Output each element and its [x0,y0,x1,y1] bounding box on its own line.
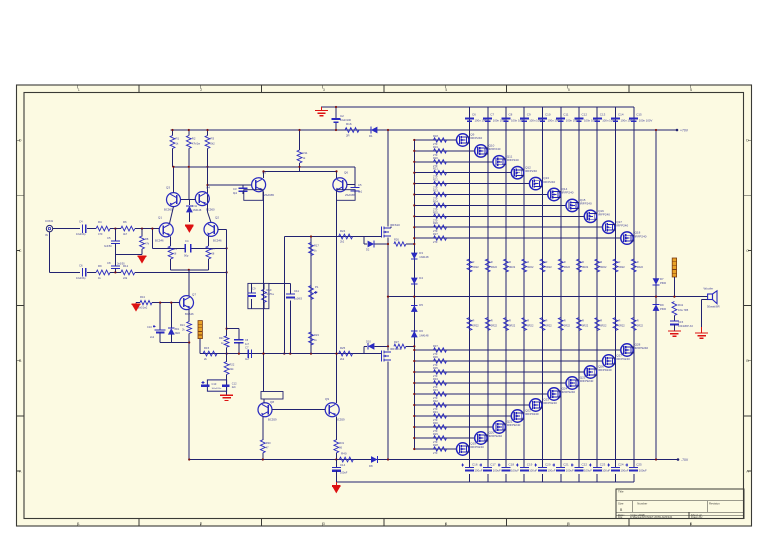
svg-text:D10: D10 [366,340,371,344]
svg-text:270: 270 [433,451,438,455]
svg-text:C6: C6 [79,264,83,268]
svg-text:R7: R7 [212,247,216,251]
svg-text:IRFP9240: IRFP9240 [616,357,630,361]
svg-text:C9: C9 [527,113,531,117]
svg-text:Q9: Q9 [325,397,329,401]
svg-text:R: R [637,260,639,264]
svg-text:Q2: Q2 [215,216,219,220]
svg-text:R26: R26 [433,221,438,225]
svg-text:Q7: Q7 [192,293,196,297]
svg-text:3n3/50: 3n3/50 [104,245,112,248]
svg-text:R22: R22 [230,363,235,367]
svg-text:BC560: BC560 [206,208,215,212]
svg-text:C22: C22 [582,463,588,467]
svg-text:IRFP9240: IRFP9240 [470,445,484,449]
svg-text:R18: R18 [433,134,438,138]
svg-text:R12: R12 [123,264,129,268]
svg-text:6: 6 [690,522,692,526]
svg-text:R14: R14 [180,324,185,327]
svg-text:1: 1 [78,88,80,92]
svg-text:BC560: BC560 [164,208,173,212]
svg-text:IRFP9240: IRFP9240 [543,401,557,405]
svg-text:47k/1w: 47k/1w [192,142,200,146]
svg-text:D11: D11 [193,204,198,208]
svg-text:10uF/6p: 10uF/6p [76,232,86,236]
svg-text:R40: R40 [341,452,347,456]
svg-text:R23: R23 [314,333,319,337]
svg-text:C6: C6 [472,113,476,117]
svg-text:C5: C5 [358,183,362,187]
svg-text:C23: C23 [600,463,606,467]
svg-text:R21: R21 [433,167,438,171]
svg-text:R23: R23 [433,189,438,193]
svg-text:R: R [546,319,548,323]
svg-text:D7: D7 [660,277,664,281]
svg-text:R: R [582,319,584,323]
svg-text:R9: R9 [98,264,102,268]
svg-text:IRFP9240: IRFP9240 [507,423,521,427]
svg-text:C11: C11 [563,113,569,117]
svg-text:IRFP240: IRFP240 [525,169,537,173]
svg-text:270: 270 [433,352,438,356]
svg-text:R: R [564,260,566,264]
svg-text:R24: R24 [340,229,346,233]
svg-text:R20: R20 [433,156,438,160]
svg-text:IRFP240: IRFP240 [507,158,519,162]
svg-text:100uF: 100uF [529,469,537,473]
svg-text:0R22: 0R22 [637,265,644,269]
svg-text:100uF: 100uF [621,469,629,473]
svg-text:R19: R19 [433,145,438,149]
svg-text:R8: R8 [145,237,149,241]
svg-text:4: 4 [445,522,447,526]
svg-text:BC546: BC546 [213,239,222,243]
svg-text:C10: C10 [147,325,152,329]
svg-text:C: C [19,249,22,253]
svg-text:File:: File: [618,515,623,519]
svg-text:R: R [600,260,602,264]
svg-text:R3: R3 [211,137,215,141]
svg-text:270: 270 [433,429,438,433]
svg-text:R: R [527,319,529,323]
svg-text:917Ka: 917Ka [267,293,275,296]
svg-text:R: R [619,260,621,264]
svg-text:D:\Backup\MOSFET-200W-AMP.ddb: D:\Backup\MOSFET-200W-AMP.ddb [630,515,673,519]
svg-text:0R22: 0R22 [564,324,571,328]
svg-text:2k2: 2k2 [340,357,345,361]
svg-text:0R22: 0R22 [619,265,626,269]
svg-text:R16: R16 [346,122,352,126]
svg-text:4n7: 4n7 [245,343,250,346]
svg-text:5: 5 [568,522,570,526]
svg-text:R37: R37 [433,344,438,348]
svg-text:R24: R24 [433,199,438,203]
svg-text:R5: R5 [174,247,178,251]
svg-text:IRFP9240: IRFP9240 [489,434,503,438]
svg-text:P600: P600 [660,307,667,311]
svg-text:IRFP9240: IRFP9240 [525,412,539,416]
svg-text:4k7: 4k7 [123,232,128,236]
svg-text:IRFP9240: IRFP9240 [635,346,649,350]
svg-text:C21: C21 [563,463,569,467]
svg-text:0R22: 0R22 [473,324,480,328]
svg-text:Number: Number [637,501,647,505]
svg-text:D1: D1 [369,134,373,138]
svg-text:2SA965: 2SA965 [264,193,274,197]
svg-text:270: 270 [433,440,438,444]
svg-text:C8: C8 [509,113,513,117]
svg-text:R: R [527,260,529,264]
svg-text:C4: C4 [79,220,83,224]
svg-text:R31: R31 [339,441,344,445]
svg-text:30Zd: 30Zd [175,332,181,335]
svg-text:+70V: +70V [680,128,689,132]
svg-text:1N4148: 1N4148 [419,334,429,338]
svg-text:C13: C13 [600,113,606,117]
svg-text:R26: R26 [394,238,399,242]
svg-text:CON1: CON1 [45,219,53,223]
svg-text:IRFP240: IRFP240 [562,191,574,195]
svg-text:Q8: Q8 [270,400,274,404]
svg-text:D4: D4 [419,276,423,280]
svg-text:50watt/8R: 50watt/8R [707,305,720,309]
svg-text:D: D [19,139,22,143]
svg-text:BC559: BC559 [336,418,345,422]
svg-text:IRFP9240: IRFP9240 [598,368,612,372]
svg-text:R13: R13 [140,295,145,299]
svg-text:0R22: 0R22 [546,265,553,269]
svg-text:IRFP240: IRFP240 [470,136,482,140]
svg-text:270: 270 [433,396,438,400]
svg-text:Drawn By:: Drawn By: [691,515,703,519]
svg-text:100n 100V: 100n 100V [639,119,653,123]
svg-text:2: 2 [200,522,202,526]
svg-text:BC559: BC559 [268,418,277,422]
svg-text:D8: D8 [369,464,373,468]
svg-text:P600: P600 [660,281,667,285]
svg-text:R: R [582,260,584,264]
svg-text:C7: C7 [245,346,249,350]
svg-text:C7: C7 [490,113,494,117]
svg-text:100uF: 100uF [602,469,610,473]
svg-text:D5: D5 [419,303,423,307]
svg-text:D: D [746,139,749,143]
svg-text:2k2: 2k2 [211,142,216,146]
svg-text:3: 3 [323,522,325,526]
svg-text:C25: C25 [636,463,642,467]
svg-text:C8: C8 [107,261,111,265]
svg-text:100uF: 100uF [639,469,647,473]
svg-text:270: 270 [433,374,438,378]
svg-text:R4: R4 [98,220,102,224]
svg-text:R: R [600,319,602,323]
svg-text:C19: C19 [527,463,533,467]
svg-text:IRFP240: IRFP240 [598,213,610,217]
svg-text:2: 2 [200,88,202,92]
svg-text:R22: R22 [433,178,438,182]
svg-text:Woofer: Woofer [704,287,714,291]
svg-text:0R22: 0R22 [564,265,571,269]
svg-text:270: 270 [433,363,438,367]
svg-text:100uF: 100uF [475,469,483,473]
svg-text:270: 270 [433,418,438,422]
svg-text:0R22: 0R22 [600,265,607,269]
svg-text:C16: C16 [472,463,478,467]
svg-text:R: R [473,319,475,323]
svg-text:6: 6 [690,88,692,92]
svg-text:R1: R1 [176,137,180,141]
svg-text:2u2: 2u2 [150,336,155,339]
svg-text:4: 4 [445,88,447,92]
svg-text:R10: R10 [267,288,272,292]
svg-text:22k: 22k [123,276,128,280]
svg-text:R6: R6 [123,220,127,224]
svg-text:470: 470 [98,232,103,236]
svg-text:R: R [491,319,493,323]
svg-text:22n: 22n [232,386,237,389]
svg-text:0R22: 0R22 [491,265,498,269]
svg-text:D6: D6 [419,329,423,333]
svg-text:0R22: 0R22 [600,324,607,328]
svg-text:2R: 2R [346,134,350,138]
svg-text:9p1: 9p1 [233,192,238,195]
svg-text:270: 270 [433,240,438,244]
svg-text:IRFP9240: IRFP9240 [580,379,594,383]
svg-text:100uF: 100uF [493,469,501,473]
svg-text:IRFP240: IRFP240 [580,202,592,206]
svg-text:C9: C9 [252,287,256,291]
svg-text:IN: IN [45,233,48,237]
svg-text:C12: C12 [582,113,588,117]
svg-text:BC546: BC546 [155,239,164,243]
svg-text:D3: D3 [419,251,423,255]
svg-text:1u0/63: 1u0/63 [294,297,302,301]
svg-text:10w 7R5: 10w 7R5 [678,308,689,312]
svg-text:-70V: -70V [681,458,689,462]
svg-text:Q4: Q4 [206,186,210,190]
svg-text:2k2: 2k2 [340,240,345,244]
svg-text:R21: R21 [219,337,224,340]
svg-text:1N4148: 1N4148 [193,209,202,212]
svg-text:1N4148: 1N4148 [419,255,429,259]
svg-text:R15: R15 [204,346,210,350]
svg-text:Q3: Q3 [166,186,170,190]
svg-text:R2: R2 [192,137,196,141]
svg-text:0R22: 0R22 [582,265,589,269]
svg-text:C3: C3 [233,187,237,191]
svg-text:IRFP240: IRFP240 [635,234,647,238]
svg-text:D9: D9 [660,303,664,307]
svg-text:0R22: 0R22 [619,324,626,328]
svg-text:5: 5 [568,88,570,92]
svg-text:C: C [746,249,749,253]
svg-text:ZD1: ZD1 [175,328,180,331]
svg-text:R: R [509,319,511,323]
svg-text:1k0/1w2: 1k0/1w2 [138,307,148,310]
svg-text:C2: C2 [340,114,344,118]
svg-text:10uF/6p: 10uF/6p [76,276,86,280]
svg-text:R17: R17 [314,244,319,248]
svg-text:0R22: 0R22 [546,324,553,328]
svg-text:1: 1 [78,522,80,526]
svg-text:R: R [637,319,639,323]
svg-text:270: 270 [433,385,438,389]
svg-text:3: 3 [323,88,325,92]
svg-text:C15: C15 [678,320,684,324]
svg-text:R25: R25 [433,210,438,214]
svg-text:C10: C10 [545,113,551,117]
svg-text:C4: C4 [185,239,189,243]
svg-text:R27: R27 [433,232,438,236]
svg-text:270: 270 [433,407,438,411]
svg-text:0R22: 0R22 [637,324,644,328]
svg-text:Title: Title [618,490,624,494]
svg-text:4u7: 4u7 [245,357,250,361]
svg-text:100uF: 100uF [511,469,519,473]
svg-text:C14: C14 [340,463,346,467]
svg-text:100nMKP-X2: 100nMKP-X2 [678,325,693,328]
svg-text:Q1: Q1 [158,216,162,220]
svg-text:Revision: Revision [709,501,720,505]
svg-text:R: R [509,260,511,264]
svg-text:100uF: 100uF [566,469,574,473]
svg-text:IRFP240: IRFP240 [616,223,628,227]
svg-text:P1: P1 [315,285,319,289]
svg-text:R41: R41 [678,303,684,307]
svg-text:C12: C12 [232,382,237,386]
svg-text:2SA965: 2SA965 [345,193,355,197]
svg-text:100uF: 100uF [340,471,348,475]
svg-text:C15: C15 [636,113,642,117]
svg-text:IRFP240: IRFP240 [489,147,501,151]
svg-text:R11: R11 [303,151,308,155]
svg-text:90p: 90p [184,254,189,258]
svg-text:100uF: 100uF [548,469,556,473]
svg-text:IRFP240: IRFP240 [543,180,555,184]
svg-text:C13: C13 [212,382,217,386]
svg-text:R: R [546,260,548,264]
svg-text:C20: C20 [545,463,551,467]
svg-text:C14: C14 [618,113,624,117]
svg-text:C18: C18 [509,463,515,467]
svg-text:100uF/16v: 100uF/16v [212,388,223,390]
svg-text:R25: R25 [340,346,346,350]
svg-text:100uF: 100uF [584,469,592,473]
svg-text:R: R [491,260,493,264]
svg-text:D2: D2 [366,248,370,252]
svg-text:0R22: 0R22 [491,324,498,328]
svg-text:10uF/100: 10uF/100 [340,118,352,122]
svg-text:IRFP9240: IRFP9240 [562,390,576,394]
svg-text:C17: C17 [490,463,496,467]
svg-text:R27: R27 [394,340,399,344]
svg-text:0R22: 0R22 [527,265,534,269]
svg-text:0R22: 0R22 [527,324,534,328]
svg-text:0R22: 0R22 [509,324,516,328]
svg-text:9p1: 9p1 [358,191,363,194]
svg-text:R: R [619,319,621,323]
svg-text:C11: C11 [294,289,299,293]
svg-text:C24: C24 [618,463,624,467]
svg-text:R: R [564,319,566,323]
svg-text:Q6: Q6 [344,171,348,175]
svg-text:R: R [473,260,475,264]
svg-text:Size: Size [618,501,624,505]
svg-text:R30: R30 [266,441,271,445]
svg-text:0R22: 0R22 [509,265,516,269]
svg-text:C5: C5 [107,236,111,240]
svg-text:0R22: 0R22 [582,324,589,328]
svg-text:IRF610: IRF610 [390,223,400,227]
svg-text:0R22: 0R22 [473,265,480,269]
